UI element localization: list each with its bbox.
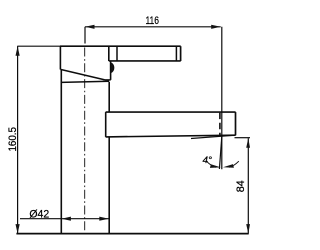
dim 42: right arrowhead (points right at body edge): [99, 217, 109, 221]
dim 42: left arrowhead (points left at body edge): [61, 217, 71, 221]
dim 116: right extension line / angle leg vertical: [221, 27, 223, 169]
spout right cap: [235, 112, 237, 135]
baseline / mounting surface: [16, 233, 248, 235]
dim 160.5: dimension line: [17, 46, 19, 233]
dim 116: left extension line: [84, 27, 86, 44]
dim 160.5: top arrowhead: [16, 46, 20, 56]
lever pivot nub (filled arc): [111, 63, 114, 73]
body right edge lower segment: [108, 137, 110, 234]
spout left cap: [105, 112, 107, 137]
angle 4deg: left arc tail with arrowhead: [207, 161, 217, 167]
svg-text:160.5: 160.5: [7, 127, 19, 152]
faucet head / lever top line: [60, 45, 181, 47]
dim 160.5: top extension line: [17, 45, 60, 47]
angle 4deg: tilted leg: [219, 137, 221, 170]
aerator hidden dashed line: [219, 113, 221, 137]
dim 84: top arrowhead: [246, 138, 250, 148]
spout top: [106, 111, 236, 113]
dim 116: dimension line: [85, 26, 221, 28]
svg-text:Ø42: Ø42: [29, 208, 49, 220]
body top seam: [61, 81, 109, 82]
spout bottom: [106, 135, 236, 137]
lever bottom: [109, 60, 181, 62]
head right edge: [110, 61, 112, 80]
lever end inner line: [175, 46, 177, 61]
svg-text:116: 116: [145, 15, 159, 27]
dim 42: dimension line: [20, 218, 109, 220]
dim 160.5: bottom arrowhead: [16, 224, 20, 234]
lever joint vertical 1: [108, 46, 110, 61]
svg-text:84: 84: [235, 180, 247, 192]
head bottom diagonal: [60, 69, 105, 80]
dim 116: left arrowhead: [85, 25, 95, 29]
centerline (dash-dot): [84, 48, 86, 231]
dim 84: dimension line: [247, 138, 249, 233]
dim 84: extension line: [235, 137, 251, 139]
lever joint vertical 2: [116, 46, 118, 61]
head left edge: [59, 46, 61, 69]
head bottom short line: [105, 79, 111, 81]
angle 4deg: right arc tail with arrowhead: [229, 161, 239, 167]
svg-text:4°: 4°: [203, 155, 213, 166]
body right edge upper segment: [108, 82, 110, 112]
body left edge: [60, 70, 62, 234]
dim 84: bottom arrowhead: [246, 224, 250, 234]
aerator face 4-degree slant line: [191, 135, 236, 138]
dim 116: right arrowhead: [211, 25, 221, 29]
lever end cap: [180, 46, 182, 61]
